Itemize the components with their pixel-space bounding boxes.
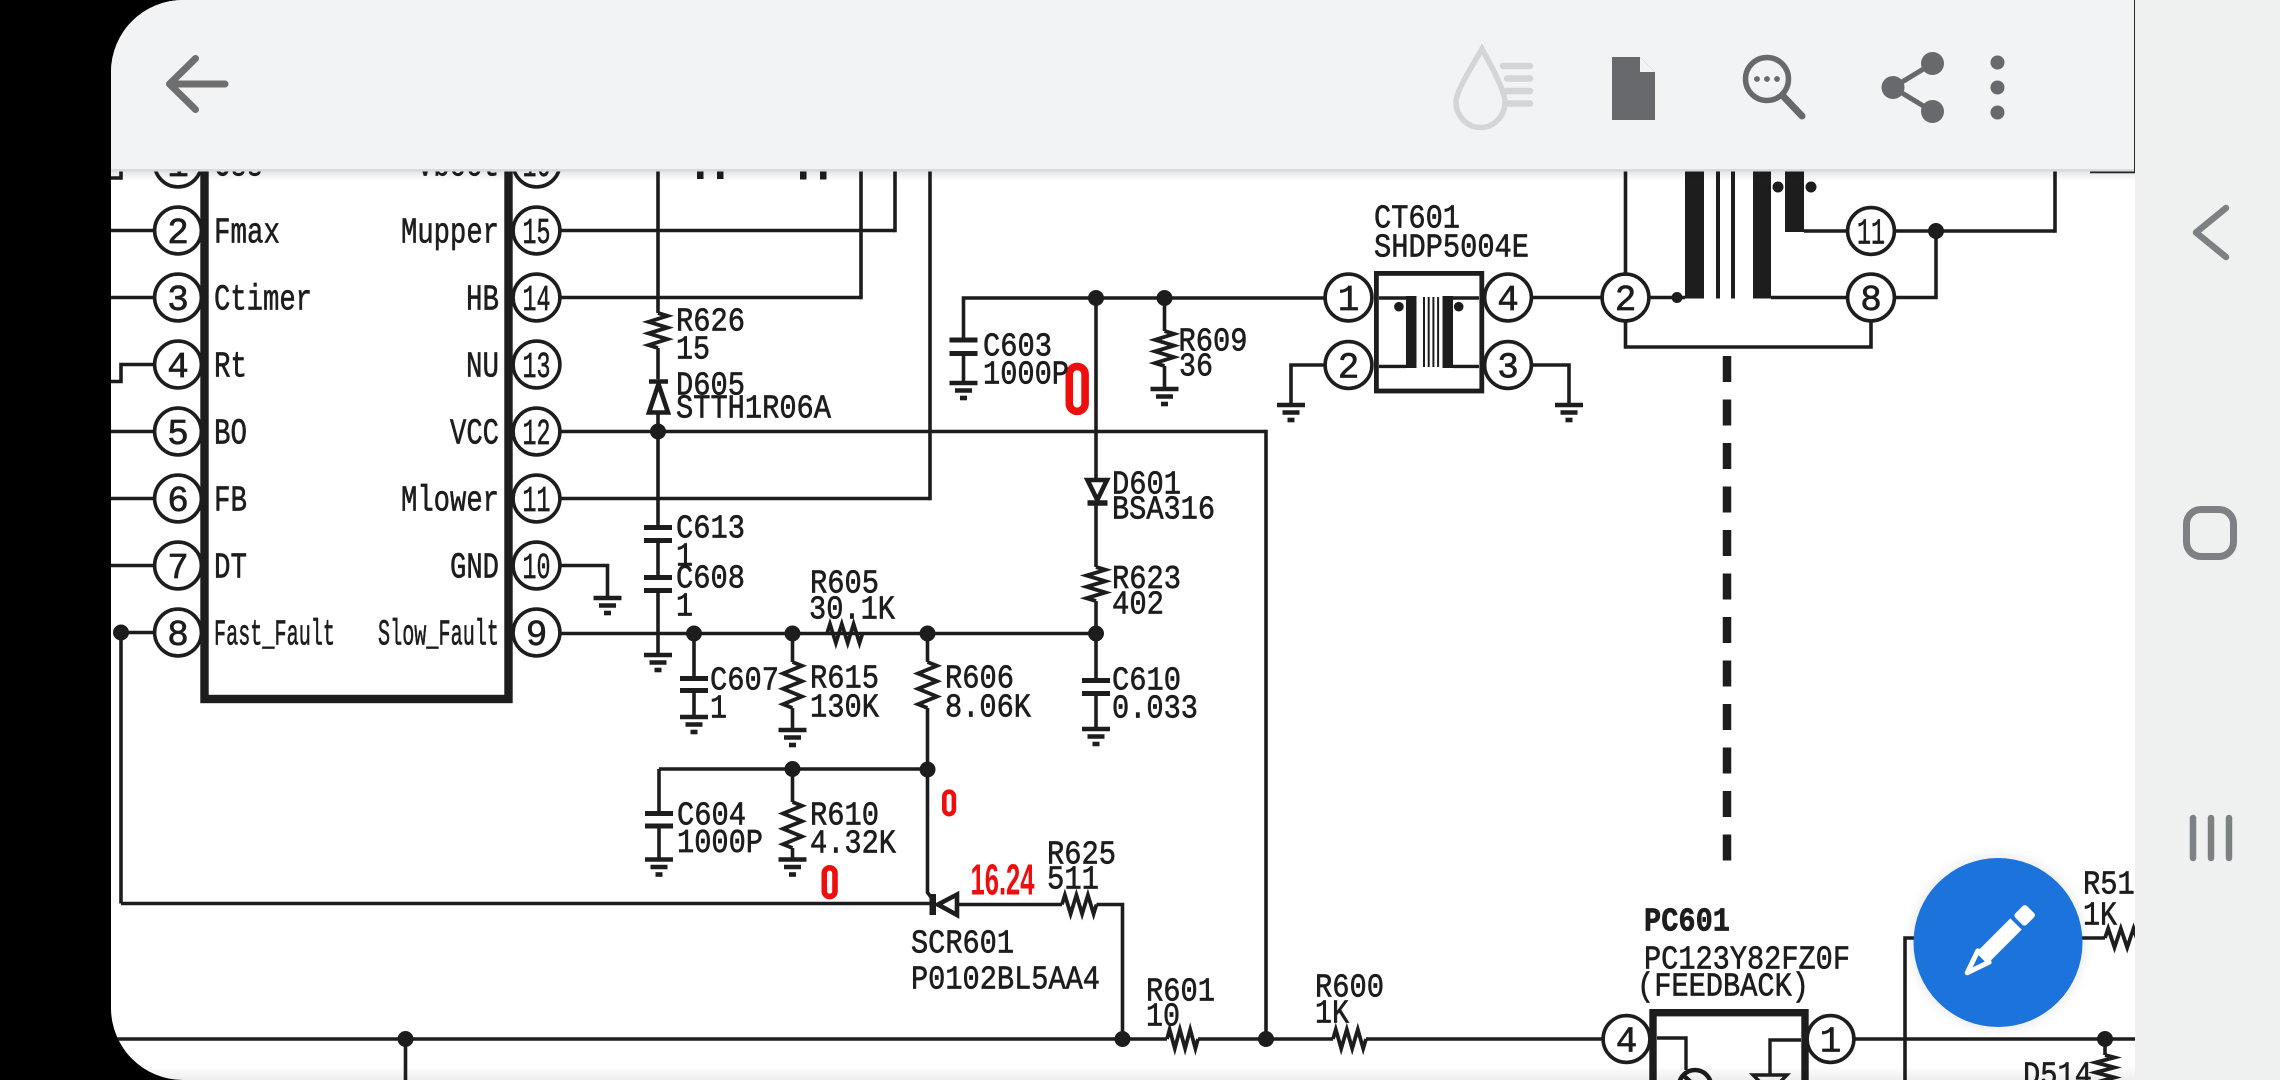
wire gate node horizontal	[659, 767, 928, 771]
svg-text:Mupper: Mupper	[401, 213, 499, 254]
wire SCR anode to R625	[957, 903, 1062, 907]
PC601 pin 4 circle	[1603, 1016, 1650, 1063]
svg-text:PC601: PC601	[1644, 904, 1730, 941]
wire pin 3 stub	[104, 296, 155, 300]
resistor R610	[783, 802, 802, 848]
wire pin 11 net	[1894, 229, 2055, 233]
svg-text:1: 1	[1820, 1021, 1842, 1062]
wire to R610	[791, 769, 795, 802]
resistor R623	[1087, 567, 1106, 601]
svg-text:Ctimer: Ctimer	[214, 280, 312, 321]
capacitor C613	[644, 528, 672, 541]
junction R610 top	[785, 761, 801, 777]
svg-text:6: 6	[167, 481, 189, 522]
svg-text:0.033: 0.033	[1112, 691, 1198, 728]
pin 10 circle	[513, 542, 560, 589]
wire pin 11 riser	[2053, 150, 2057, 233]
T601 polarity dot upper	[1773, 182, 1784, 193]
wire T601 winding to pin 11	[1804, 229, 1848, 233]
resistor R615	[783, 662, 802, 708]
toolbar share icon	[1893, 64, 1933, 112]
red annotation 0 at R610	[824, 868, 835, 897]
junction C610	[1088, 626, 1104, 642]
wire pin 7 stub	[104, 564, 155, 568]
T601 pin 11 circle	[1848, 208, 1895, 255]
junction R625 riser	[1115, 1031, 1131, 1047]
toolbar overflow menu icon	[1991, 56, 2005, 120]
pin 11 circle	[513, 475, 560, 522]
capacitor C608	[644, 578, 672, 591]
svg-text:1: 1	[676, 589, 693, 626]
svg-text:FB: FB	[214, 481, 247, 522]
ground below C604	[645, 860, 673, 875]
wire HB net	[560, 296, 861, 300]
T601 pin 8 circle	[1848, 274, 1895, 321]
clipped component top right wire	[2090, 162, 2137, 171]
svg-text:HB: HB	[466, 280, 499, 321]
bottom fade	[111, 1066, 2135, 1080]
toolbar search icon	[1746, 58, 1803, 117]
junction R615	[785, 626, 801, 642]
svg-text:2: 2	[1615, 280, 1637, 321]
pencil icon	[1962, 904, 2037, 979]
resistor R626	[649, 313, 668, 348]
capacitor plates clipped at top right pair	[800, 150, 827, 180]
dashed coupling line	[1723, 356, 1732, 878]
wire to R615	[791, 634, 795, 663]
CT601 pin 2 circle	[1325, 342, 1372, 389]
wire R623 to Slow_Fault net	[1094, 601, 1098, 634]
svg-text:GND: GND	[450, 548, 499, 589]
svg-text:10: 10	[523, 548, 551, 589]
ground GND pin	[594, 598, 622, 613]
CT601 pin 4 circle	[1485, 274, 1532, 321]
ground below R610	[779, 860, 807, 875]
ground CT601 pin 2	[1277, 405, 1305, 420]
wire C610 to ground	[1094, 694, 1098, 729]
svg-text:2: 2	[167, 213, 189, 254]
wire to D514	[2103, 1039, 2107, 1055]
svg-text:1: 1	[1338, 280, 1360, 321]
svg-text:1000P: 1000P	[677, 825, 763, 862]
svg-text:2: 2	[1338, 347, 1360, 388]
T601 polarity dot lower left	[1672, 292, 1683, 303]
pin 9 circle	[513, 609, 560, 656]
svg-text:SCR601: SCR601	[911, 926, 1014, 963]
svg-text:Slow_Fault: Slow_Fault	[378, 615, 499, 656]
wire D605 to VCC net	[656, 413, 660, 432]
CT601 pin 3 circle	[1485, 342, 1532, 389]
ground below R609	[1151, 389, 1179, 404]
svg-text:4.32K: 4.32K	[810, 826, 896, 863]
svg-text:SHDP5004E: SHDP5004E	[1374, 230, 1529, 267]
resistor R609	[1155, 331, 1174, 366]
ground below C610	[1082, 729, 1110, 744]
svg-text:Mlower: Mlower	[401, 481, 499, 522]
wire R517 right	[2143, 936, 2160, 940]
capacitor C610	[1082, 681, 1110, 694]
junction bottom rail stub	[398, 1031, 414, 1047]
svg-text:4: 4	[1497, 280, 1519, 321]
svg-text:15: 15	[523, 213, 551, 254]
wire VCC to C613	[656, 432, 660, 528]
resistor below D514 junction	[2096, 1055, 2115, 1080]
wire R606 to gate node	[926, 708, 930, 770]
floating action button edit	[1913, 857, 2084, 1028]
diode D601	[1088, 480, 1108, 503]
junction C607	[686, 626, 702, 642]
wire to R609	[1163, 298, 1167, 331]
pin 13 circle	[513, 341, 560, 388]
wire bottom rail left	[110, 1037, 1167, 1041]
capacitor C607	[680, 679, 708, 691]
PC601 internal phototransistor side	[1753, 1040, 1801, 1080]
wire C607 to ground	[692, 691, 696, 717]
ground below C603	[950, 383, 978, 398]
pin 6 circle	[155, 475, 202, 522]
diode D605	[649, 382, 668, 413]
wire D601 to R623	[1094, 506, 1098, 568]
svg-text:10: 10	[1146, 999, 1180, 1036]
wire bottom rail mid	[1198, 1037, 1333, 1041]
wire pin 1 stub jog	[104, 164, 155, 179]
svg-text:NU: NU	[466, 347, 499, 388]
svg-text:130K: 130K	[810, 690, 879, 727]
svg-text:1K: 1K	[2083, 898, 2117, 935]
svg-text:8: 8	[1860, 280, 1882, 321]
toolbar	[111, 0, 2135, 169]
wire R610 to ground	[791, 848, 795, 859]
svg-text:P0102BL5AA4: P0102BL5AA4	[911, 962, 1100, 999]
resistor R606	[918, 662, 937, 708]
svg-text:Fast_Fault: Fast_Fault	[214, 615, 335, 656]
svg-text:7: 7	[167, 548, 189, 589]
optocoupler PC601 body	[1653, 1013, 1805, 1080]
T601 pin 2 circle	[1602, 274, 1649, 321]
wire HB riser	[859, 150, 863, 299]
svg-text:14: 14	[523, 280, 551, 321]
pin 3 circle	[155, 274, 202, 321]
wire to R626 top	[656, 150, 660, 313]
pin 16 circle	[513, 140, 560, 187]
wire pin 5 stub	[104, 430, 155, 434]
resistor R605	[827, 624, 863, 643]
red annotation 0 at R606	[944, 792, 954, 814]
junction R606	[920, 626, 936, 642]
svg-text:9: 9	[526, 615, 548, 656]
PC601 internal LED side	[1657, 1038, 1711, 1080]
svg-text:5: 5	[167, 414, 189, 455]
pin 4 circle	[155, 341, 202, 388]
nav recents bars	[2193, 818, 2229, 858]
wire VCC riser	[1264, 430, 1268, 1039]
svg-text:511: 511	[1047, 862, 1099, 899]
wire R615 to ground	[791, 708, 795, 729]
wire T601 pin2 to winding	[1649, 296, 1685, 300]
capacitor C604	[645, 814, 673, 827]
wire PC601 pin 1 net	[1854, 1037, 2140, 1041]
wire pin 8 to pin 11 junction	[1894, 231, 1936, 298]
wire pin 4 Rt stub jog	[104, 365, 155, 382]
svg-text:16.24: 16.24	[971, 856, 1035, 905]
svg-text:4: 4	[167, 347, 189, 388]
pin 7 circle	[155, 542, 202, 589]
wire R625 to bottom rail riser	[1097, 905, 1123, 1040]
junction VCC riser bottom	[1258, 1031, 1274, 1047]
red annotation 0 at C603	[1069, 366, 1085, 411]
wire R626 to D605	[656, 348, 660, 379]
svg-text:402: 402	[1112, 587, 1164, 624]
pin 15 circle	[513, 207, 560, 254]
wire R517 net	[1905, 938, 2105, 1080]
pin 2 circle	[155, 207, 202, 254]
wire SCR gate horizontal	[121, 902, 932, 906]
capacitor C603	[950, 340, 978, 354]
pin 8 circle	[155, 609, 202, 656]
svg-text:BO: BO	[214, 414, 247, 455]
junction D514	[2097, 1031, 2113, 1047]
wire VCC net	[560, 430, 1266, 434]
CT601 pin 1 circle	[1325, 274, 1372, 321]
svg-text:8: 8	[167, 615, 189, 656]
pin 14 circle	[513, 274, 560, 321]
transformer CT601 body	[1376, 273, 1481, 391]
svg-text:13: 13	[523, 347, 551, 388]
wire Mlower net	[560, 497, 930, 501]
pin 12 circle	[513, 408, 560, 455]
wire Slow_Fault net	[560, 632, 1096, 636]
wire to C604	[657, 769, 661, 814]
svg-text:BSA316: BSA316	[1112, 492, 1215, 529]
wire to R606	[926, 634, 930, 663]
wire GND pin to ground	[560, 566, 608, 598]
scroll indicator / app edge line over toolbar	[2134, 0, 2137, 172]
wire R600 to PC601 pin 4	[1366, 1037, 1603, 1041]
svg-text:1: 1	[710, 691, 727, 728]
T601 polarity dot upper right	[1806, 182, 1817, 193]
ground below C607	[680, 717, 708, 732]
svg-text:DT: DT	[214, 548, 247, 589]
wire pin 6 stub	[104, 497, 155, 501]
nav home squircle	[2187, 510, 2234, 557]
wire CT601 pin 2 to ground	[1291, 365, 1325, 404]
wire C604 to ground	[657, 826, 661, 859]
junction pin 8	[113, 625, 129, 641]
navigation bar	[2135, 0, 2280, 1080]
wire T601 winding to pin 8	[1771, 296, 1848, 300]
wire R609 to ground	[1163, 366, 1167, 388]
ground below R615	[779, 730, 807, 745]
resistor R517	[2105, 929, 2143, 948]
svg-text:8.06K: 8.06K	[945, 690, 1031, 727]
pin 5 circle	[155, 408, 202, 455]
wire C603 riser	[964, 298, 1325, 340]
resistor R601	[1167, 1030, 1198, 1049]
svg-text:Rt: Rt	[214, 347, 247, 388]
wire CT601 pin 4 to T601 pin 2	[1531, 296, 1602, 300]
junction R609 net	[1157, 290, 1173, 306]
junction VCC / D605	[650, 424, 666, 440]
wire C608 to ground	[656, 591, 660, 655]
wire Fast_Fault down rail	[119, 633, 123, 904]
svg-text:11: 11	[523, 481, 551, 522]
svg-text:1K: 1K	[1315, 996, 1349, 1033]
wire to C607	[692, 634, 696, 679]
capacitor plates clipped at top left pair	[697, 150, 724, 179]
wire Mlower riser	[928, 150, 932, 500]
wire T601 bottom rail	[1626, 321, 1872, 347]
wire pin 2 stub	[104, 229, 155, 233]
toolbar back arrow	[170, 59, 226, 110]
pin 1 circle	[155, 140, 202, 187]
wire net to D601	[1094, 298, 1098, 480]
ground CT601 pin 3	[1555, 405, 1583, 420]
svg-text:3: 3	[167, 280, 189, 321]
junction gate riser	[920, 762, 936, 778]
resistor R600	[1333, 1030, 1366, 1049]
toolbar document icon	[1612, 57, 1655, 120]
svg-text:30.1K: 30.1K	[809, 592, 895, 629]
wire C603 to ground	[962, 354, 966, 383]
ground below C608	[644, 655, 672, 670]
resistor R625	[1062, 895, 1097, 914]
transformer T601 windings	[1685, 140, 1804, 299]
IC U601 resonant controller body	[205, 128, 509, 699]
wire Mupper net	[560, 229, 895, 233]
svg-text:11: 11	[1857, 213, 1885, 254]
svg-text:36: 36	[1179, 349, 1213, 386]
SCR601 thyristor	[930, 894, 958, 915]
wire to C610	[1094, 634, 1098, 681]
wire pin 8 stub	[121, 631, 155, 635]
wire C613 to C608	[656, 541, 660, 578]
svg-text:STTH1R06A: STTH1R06A	[676, 390, 831, 427]
wire CT601 pin 3 to ground	[1531, 365, 1569, 404]
svg-text:4: 4	[1616, 1021, 1638, 1062]
wire Mupper riser	[893, 150, 897, 232]
svg-text:1000P: 1000P	[983, 357, 1069, 394]
wire gate riser to SCR	[928, 770, 933, 900]
svg-text:15: 15	[676, 332, 710, 369]
PC601 pin 1 circle	[1807, 1016, 1854, 1063]
wire T601 pin 2 riser	[1624, 150, 1628, 274]
svg-text:(FEEDBACK): (FEEDBACK)	[1637, 969, 1809, 1006]
toolbar annotate-drop icon (disabled)	[1456, 49, 1505, 128]
wire stub down	[404, 1039, 408, 1080]
svg-text:3: 3	[1497, 347, 1519, 388]
nav back chevron	[2196, 208, 2226, 257]
svg-text:VCC: VCC	[450, 414, 499, 455]
svg-text:12: 12	[523, 414, 551, 455]
junction D601 net	[1088, 290, 1104, 306]
junction pin 11 / pin 8 link	[1928, 223, 1944, 239]
svg-text:Fmax: Fmax	[214, 213, 280, 254]
